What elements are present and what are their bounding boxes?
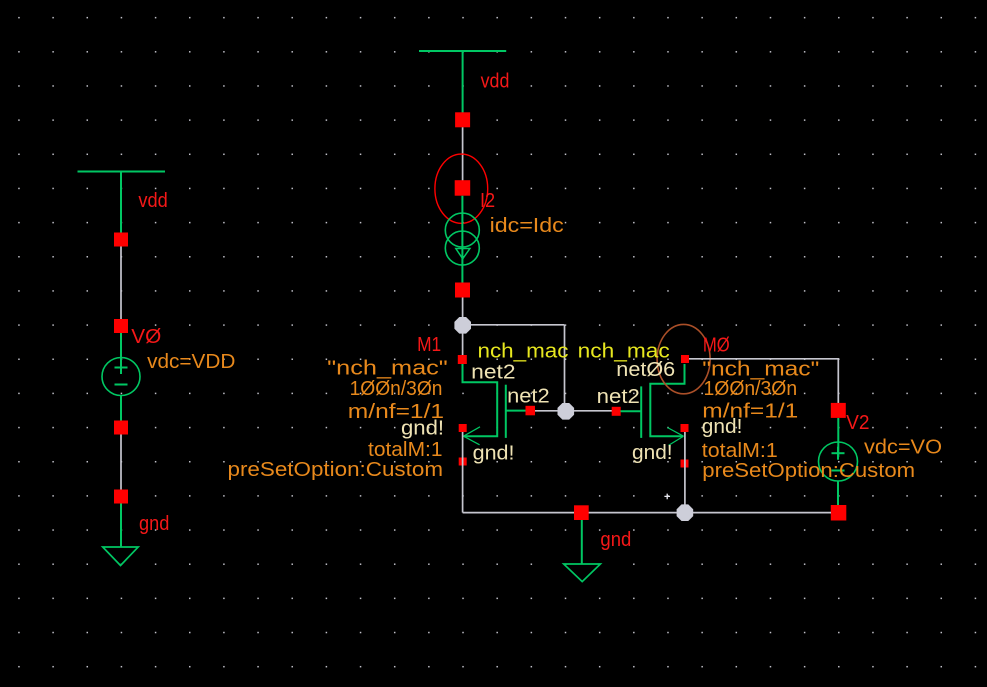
svg-text:vdc=VDD: vdc=VDD	[147, 351, 235, 373]
svg-text:gnd: gnd	[600, 529, 631, 551]
svg-text:nch_mac: nch_mac	[478, 341, 569, 363]
wire M1 source/bulk down to rail	[462, 432, 464, 513]
svg-text:VØ: VØ	[131, 326, 161, 348]
svg-text:vdd: vdd	[481, 71, 510, 93]
solder node (drain of M1)	[454, 317, 471, 334]
wire (left branch upper)	[120, 247, 122, 320]
M0 source pin square	[681, 424, 689, 432]
wire gate node to M1 gate	[535, 410, 558, 412]
pin square V2 plus	[831, 403, 846, 418]
voltage source V2	[819, 418, 858, 505]
wire (down to gate node)	[564, 325, 566, 404]
M1 source arrow	[464, 427, 481, 445]
svg-text:gnd!: gnd!	[473, 443, 515, 465]
pin square V0 minus	[114, 421, 128, 435]
svg-text:I2: I2	[480, 190, 495, 212]
svg-text:net2: net2	[507, 385, 550, 407]
M0 body	[621, 364, 685, 438]
solder node (gate junction)	[558, 403, 575, 420]
svg-text:M1: M1	[417, 334, 441, 356]
svg-text:gnd!: gnd!	[702, 416, 743, 438]
wire M0 source/bulk down to node	[684, 432, 686, 506]
wire (left branch lower)	[120, 435, 122, 491]
wire gate node to M0 gate	[574, 410, 612, 412]
wire M0 drain to V2 top	[689, 359, 838, 403]
M1 gate pin square	[526, 406, 536, 416]
origin marker cross	[664, 494, 670, 500]
svg-text:gnd!: gnd!	[632, 442, 673, 464]
ground symbol (left)	[103, 504, 139, 566]
pin square I2 bottom	[455, 283, 470, 298]
svg-text:net2: net2	[471, 362, 515, 384]
pin square V0 plus	[114, 319, 128, 333]
svg-text:idc=Idc: idc=Idc	[490, 215, 564, 237]
svg-text:gnd!: gnd!	[401, 418, 444, 440]
M1 source pin square	[459, 424, 467, 432]
wire (vdd to I2)	[462, 127, 464, 181]
M0 drain pin square	[681, 355, 689, 363]
svg-text:net2: net2	[597, 386, 640, 408]
M1 body	[463, 364, 527, 438]
wire endpoint square (gnd pin)	[574, 505, 589, 520]
svg-text:totalM:1: totalM:1	[368, 439, 443, 461]
svg-text:totalM:1: totalM:1	[702, 440, 778, 462]
selection ellipse around I2 pin	[435, 154, 488, 223]
svg-text:1ØØn/3Øn: 1ØØn/3Øn	[704, 378, 798, 400]
solder node (rail right)	[677, 504, 694, 521]
M0 gate pin square	[612, 407, 621, 416]
pin square I2 top	[455, 180, 471, 196]
wire endpoint square (left vdd to V0)	[114, 233, 128, 247]
current source I2	[445, 196, 479, 283]
wire (node to M1 drain)	[462, 333, 464, 356]
svg-text:vdc=VO: vdc=VO	[864, 437, 942, 459]
wire endpoint square (V0 to gnd)	[114, 490, 128, 504]
svg-text:preSetOption:Custom: preSetOption:Custom	[702, 460, 915, 482]
selection ellipse around M0 drain	[657, 324, 710, 393]
M0 bulk pin square	[681, 460, 689, 468]
M1 drain pin square	[458, 355, 467, 364]
svg-text:netØ6: netØ6	[616, 359, 675, 381]
voltage source V0	[102, 333, 140, 421]
M0 source arrow	[667, 428, 683, 446]
svg-text:1ØØn/3Øn: 1ØØn/3Øn	[350, 378, 443, 400]
svg-text:"nch_mac": "nch_mac"	[327, 358, 448, 380]
svg-text:MØ: MØ	[703, 335, 730, 357]
svg-text:gnd: gnd	[139, 513, 169, 535]
svg-text:V2: V2	[846, 412, 869, 434]
wire endpoint square (vdd to I2)	[455, 112, 470, 127]
ground symbol (middle)	[564, 520, 601, 582]
M1 bulk pin square	[459, 458, 467, 466]
svg-text:vdd: vdd	[138, 190, 167, 212]
ground rail wire (bottom)	[463, 512, 831, 514]
pin square V2 minus	[831, 505, 847, 521]
wire (node to gates, horizontal)	[471, 324, 565, 326]
wire (I2 to node)	[462, 298, 464, 319]
vdd rail symbol (top middle)	[419, 51, 506, 113]
svg-text:preSetOption:Custom: preSetOption:Custom	[228, 459, 444, 481]
vdd rail symbol (left, net vdd)	[78, 172, 166, 234]
